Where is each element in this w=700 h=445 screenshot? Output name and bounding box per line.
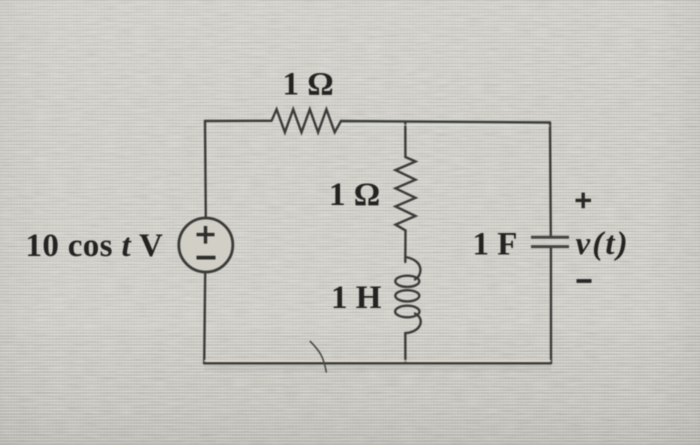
svg-text:1 Ω: 1 Ω (283, 67, 334, 103)
svg-text:1 H: 1 H (331, 280, 382, 316)
svg-text:10 cos t V: 10 cos t V (26, 228, 164, 264)
svg-text:1 F: 1 F (473, 227, 518, 263)
svg-text:v(t): v(t) (576, 226, 630, 262)
svg-text:1 Ω: 1 Ω (329, 177, 380, 213)
